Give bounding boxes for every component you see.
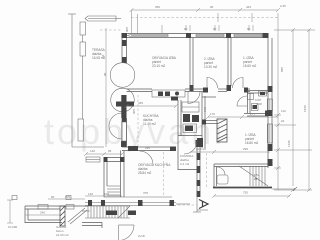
svg-text:1495: 1495 [287,140,291,147]
svg-text:1560: 1560 [303,105,307,112]
svg-text:443: 443 [246,5,251,9]
svg-text:28: 28 [254,177,258,181]
svg-text:290: 290 [243,147,248,151]
svg-text:11.40 m2: 11.40 m2 [143,122,156,126]
svg-text:350: 350 [155,5,160,9]
svg-text:240: 240 [40,211,45,215]
svg-text:445: 445 [138,101,143,105]
svg-text:277: 277 [250,112,255,116]
svg-text:21.30 m2: 21.30 m2 [56,233,69,237]
svg-text:905: 905 [125,27,129,32]
svg-text:105: 105 [104,192,109,196]
svg-text:255: 255 [145,146,150,150]
svg-text:110: 110 [281,109,286,113]
svg-text:13.30 m2: 13.30 m2 [204,65,218,69]
svg-text:40 1.05: 40 1.05 [196,147,206,151]
svg-text:24: 24 [281,119,285,123]
svg-text:755: 755 [243,191,248,195]
svg-text:28.84 m2: 28.84 m2 [138,171,152,175]
svg-text:23.10 m2: 23.10 m2 [152,64,166,68]
svg-text:50: 50 [51,195,55,199]
svg-text:170: 170 [210,112,215,116]
svg-text:4.28: 4.28 [256,102,262,106]
svg-text:905: 905 [132,109,136,114]
svg-text:15.60 m2: 15.60 m2 [243,64,257,68]
svg-text:16.08 m2: 16.08 m2 [92,56,106,60]
svg-text:2.25: 2.25 [280,4,286,8]
svg-text:2x18: 2x18 [138,234,145,238]
svg-text:170: 170 [203,107,207,112]
svg-text:16.80 m2: 16.80 m2 [245,141,259,145]
svg-text:95: 95 [108,149,112,153]
svg-text:90: 90 [103,72,107,76]
svg-text:2.2 m2: 2.2 m2 [180,162,190,166]
svg-text:±0,000: ±0,000 [8,225,17,229]
svg-text:90: 90 [210,5,214,9]
svg-text:375: 375 [143,191,148,195]
svg-text:140: 140 [88,192,93,196]
svg-text:885: 885 [280,67,284,72]
svg-text:140: 140 [90,149,95,153]
